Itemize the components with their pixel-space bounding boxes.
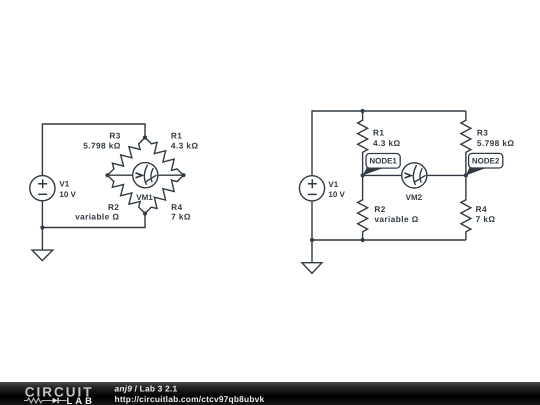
CircuitLab logo: resistor zigzag — [24, 398, 53, 403]
wire V1 top rail (right circuit) — [312, 111, 466, 176]
CircuitLab logo: diode symbol — [53, 398, 58, 404]
wire VM2 to NODE2 — [427, 174, 466, 176]
node NODE1 junction — [361, 173, 365, 177]
resistor R4 (right circuit) — [461, 175, 471, 240]
node bottom rail junction — [361, 238, 365, 242]
svg-text:R1: R1 — [171, 131, 182, 141]
wire bridge bottom node to V1 bottom — [42, 201, 145, 228]
svg-text:7 kΩ: 7 kΩ — [476, 214, 496, 224]
voltage source V1 (right) — [299, 176, 324, 201]
resistor R3 (right circuit) — [461, 111, 471, 175]
node bridge right — [181, 173, 185, 177]
svg-text:variable Ω: variable Ω — [75, 212, 119, 222]
svg-text:5.798 kΩ: 5.798 kΩ — [83, 141, 121, 151]
resistor R2 (right circuit) — [358, 175, 368, 240]
svg-text:R3: R3 — [477, 128, 488, 138]
svg-text:VM2: VM2 — [406, 193, 423, 202]
named node flag NODE2 — [466, 153, 503, 175]
svg-text:R2: R2 — [374, 204, 385, 214]
svg-text:R4: R4 — [476, 204, 487, 214]
voltage source V1 (left) — [30, 176, 55, 201]
wire V1 top to bridge top node — [42, 124, 145, 176]
named node flag NODE1 — [363, 154, 401, 176]
resistor R1 (left bridge upper-right) — [145, 138, 184, 176]
svg-text:NODE2: NODE2 — [472, 157, 500, 166]
resistor R3 (left bridge upper-left) — [108, 138, 146, 176]
voltmeter VM2 — [402, 163, 427, 188]
svg-text:variable Ω: variable Ω — [374, 214, 418, 224]
svg-text:R1: R1 — [373, 128, 384, 138]
svg-text:V1: V1 — [328, 180, 338, 189]
svg-text:V1: V1 — [59, 180, 69, 189]
node bridge left — [105, 173, 109, 177]
node bridge top — [143, 135, 147, 139]
svg-text:5.798 kΩ: 5.798 kΩ — [477, 138, 515, 148]
wire NODE1 to VM2 — [363, 174, 402, 176]
wire bottom rail (right circuit) — [312, 201, 466, 240]
resistor R1 (right circuit) — [358, 111, 368, 175]
svg-text:10 V: 10 V — [328, 190, 345, 199]
svg-text:4.3 kΩ: 4.3 kΩ — [373, 138, 401, 148]
svg-text:R3: R3 — [109, 131, 120, 141]
node bottom rail ground junction — [310, 238, 314, 242]
wire bridge left node to VM1 — [108, 174, 133, 176]
node top rail junction — [361, 109, 365, 113]
svg-text:10 V: 10 V — [59, 190, 76, 199]
wire VM1 to bridge right node — [158, 174, 184, 176]
node V1 bottom junction — [40, 225, 44, 229]
svg-text:NODE1: NODE1 — [369, 157, 397, 166]
svg-text:VM1: VM1 — [136, 193, 153, 202]
resistor R4 (left bridge lower-right) — [145, 175, 184, 213]
voltmeter VM1 — [133, 163, 158, 188]
svg-text:anj9 / Lab 3 2.1: anj9 / Lab 3 2.1 — [115, 384, 178, 394]
svg-text:LAB: LAB — [67, 396, 96, 405]
svg-text:http://circuitlab.com/ctcv97qb: http://circuitlab.com/ctcv97qb8ubvk — [115, 394, 265, 404]
svg-text:4.3 kΩ: 4.3 kΩ — [171, 141, 199, 151]
node NODE2 junction — [464, 173, 468, 177]
ground (left circuit) — [32, 228, 53, 261]
resistor R2 (left bridge lower-left) — [108, 175, 146, 213]
ground (right circuit) — [302, 240, 322, 273]
svg-text:7 kΩ: 7 kΩ — [171, 212, 191, 222]
node bridge bottom — [143, 211, 147, 215]
